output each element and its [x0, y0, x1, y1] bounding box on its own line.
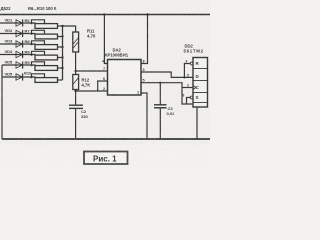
resistor R7: [30, 30, 57, 39]
wire row6 to bus: [58, 79, 63, 81]
wire node to pin7: [76, 70, 108, 72]
flip-flop DD2 body: [193, 58, 208, 108]
junction D/R branch: [183, 76, 185, 78]
wire pin6 loop: [98, 81, 108, 91]
wire R12 bottom: [75, 90, 77, 106]
wire C input branch: [182, 87, 193, 89]
junction row4: [61, 56, 63, 58]
diode VD2: [16, 30, 23, 37]
wire bus to R11 top: [63, 26, 76, 32]
resistor R6: [30, 20, 57, 29]
wire row4: [0, 54, 36, 56]
wire row5: [2, 64, 36, 66]
top supply bus: [0, 14, 210, 16]
junction row2: [61, 35, 63, 37]
resistor R11: [73, 32, 79, 52]
resistor R10: [30, 74, 57, 83]
junction row3: [61, 46, 63, 48]
diode VD1: [16, 19, 23, 26]
wire row5 to bus: [58, 67, 63, 69]
wire row2 to bus: [58, 36, 63, 38]
wire branch to R input: [184, 64, 190, 78]
wire S to ground run: [187, 98, 191, 105]
wire pin5 run: [141, 83, 197, 139]
node R11/R12: [74, 70, 76, 72]
wire row6: [2, 76, 36, 78]
diode VD5: [16, 61, 23, 68]
capacitor C2: [69, 104, 83, 106]
wire row1 to bus: [58, 25, 65, 27]
junction row1/bus: [61, 25, 63, 27]
diode VD6: [16, 73, 23, 80]
node R12/C2: [74, 90, 76, 92]
paper background: [0, 0, 210, 170]
wire node to pins 6,2: [76, 90, 108, 92]
resistor R9: [30, 51, 57, 60]
wire row1: [0, 22, 36, 24]
junction row5: [61, 67, 63, 69]
diode VD4: [16, 51, 23, 58]
bottom rail: [2, 138, 210, 140]
resistor R9b: [30, 62, 57, 71]
wire R11 bottom: [75, 52, 77, 75]
wire row4 to bus: [58, 57, 63, 59]
dynamic marker C: [193, 86, 196, 90]
diode VD3: [16, 40, 23, 47]
wire C2 to rail: [75, 108, 77, 139]
wire pin3 to DD2 D input: [141, 72, 193, 77]
wire row2: [0, 33, 36, 35]
wire pin8 riser to top bus: [141, 15, 148, 64]
left edge wire joining rows 5,6 to bottom rail: [1, 65, 3, 139]
junction C3 tap: [159, 82, 161, 84]
op-amp DA2 body: [108, 60, 142, 96]
wire pin4 riser: [104, 15, 107, 64]
inversion bubble S: [190, 96, 193, 99]
wire row3: [0, 43, 36, 45]
wire pin1 to rail: [141, 93, 147, 139]
caption box Рис. 1: [84, 152, 128, 165]
inversion bubble R: [190, 62, 193, 65]
resistor R8: [30, 41, 57, 50]
capacitor C3: [159, 83, 161, 105]
common vertical bus: [62, 26, 64, 80]
wire C3 to rail: [159, 108, 161, 139]
resistor R12: [73, 75, 79, 90]
wire row3 to bus: [58, 46, 63, 48]
